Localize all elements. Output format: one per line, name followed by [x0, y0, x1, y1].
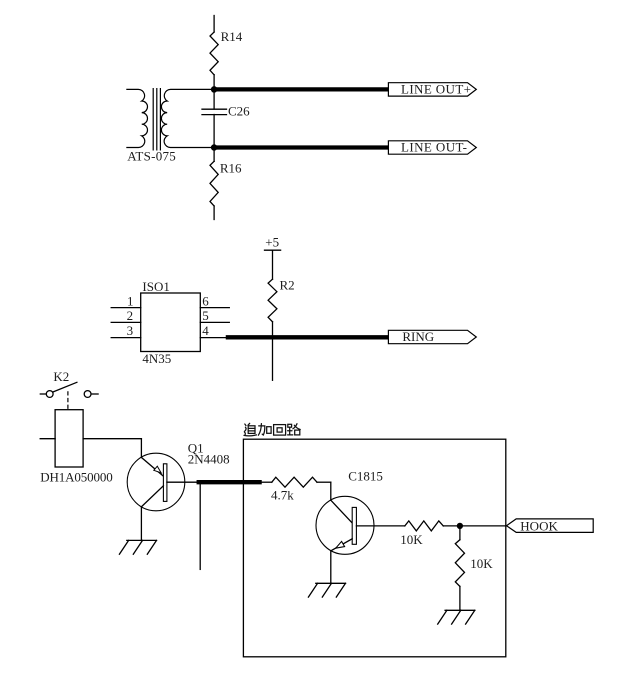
svg-text:10K: 10K [470, 556, 493, 571]
svg-text:R16: R16 [220, 161, 242, 176]
svg-text:4.7k: 4.7k [271, 488, 294, 503]
svg-text:DH1A050000: DH1A050000 [40, 469, 113, 484]
svg-text:2: 2 [127, 308, 134, 323]
svg-text:2N4408: 2N4408 [188, 452, 230, 467]
svg-text:ATS-075: ATS-075 [127, 148, 176, 163]
svg-text:4: 4 [202, 323, 209, 338]
svg-text:R2: R2 [280, 278, 295, 293]
svg-text:LINE OUT+: LINE OUT+ [401, 81, 471, 96]
svg-text:LINE OUT-: LINE OUT- [401, 139, 467, 154]
svg-text:ISO1: ISO1 [142, 279, 169, 294]
svg-text:K2: K2 [53, 369, 69, 384]
svg-text:10K: 10K [400, 532, 423, 547]
svg-text:5: 5 [202, 308, 209, 323]
svg-text:C26: C26 [228, 104, 250, 119]
svg-text:6: 6 [202, 294, 209, 309]
svg-text:1: 1 [127, 294, 134, 309]
svg-text:RING: RING [402, 329, 434, 344]
svg-text:3: 3 [127, 323, 134, 338]
svg-text:R14: R14 [221, 29, 243, 44]
svg-text:HOOK: HOOK [520, 518, 558, 533]
svg-text:+5: +5 [265, 234, 279, 249]
svg-text:4N35: 4N35 [142, 351, 171, 366]
svg-text:C1815: C1815 [348, 468, 383, 483]
